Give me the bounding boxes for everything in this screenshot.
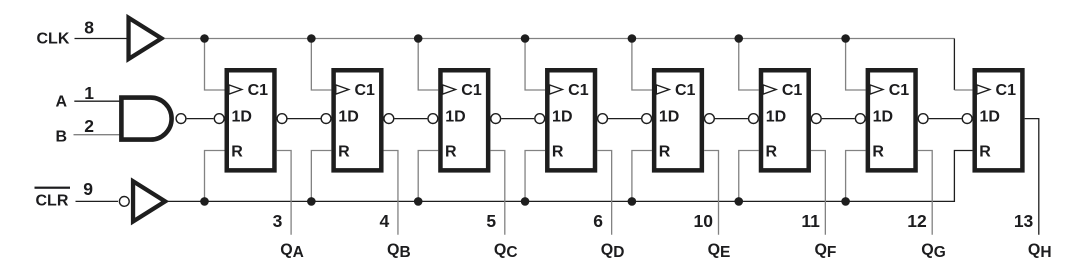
- svg-text:6: 6: [593, 211, 603, 231]
- flip-flop FF2 body: [334, 70, 382, 170]
- wire input A: [74, 100, 121, 102]
- svg-text:1D: 1D: [659, 109, 679, 126]
- junction dot CLK/FF6: [734, 34, 743, 43]
- FF8 dynamic clock indicator: [977, 85, 990, 94]
- FF4 dynamic clock indicator: [549, 85, 562, 94]
- FF6 output bubble: [811, 114, 821, 124]
- svg-text:R: R: [766, 144, 778, 161]
- FF7 dynamic clock indicator: [870, 85, 883, 94]
- flip-flop FF3 body: [440, 70, 488, 170]
- wire reset branch to FF3 R: [418, 151, 438, 202]
- svg-text:R: R: [231, 144, 243, 161]
- wire clock branch to FF5 C1: [632, 39, 652, 91]
- junction dot CLK/FF3: [414, 34, 423, 43]
- svg-text:1: 1: [84, 83, 94, 103]
- FF5 dynamic clock indicator: [656, 85, 669, 94]
- wire reset branch to FF2 R: [311, 151, 331, 202]
- svg-text:5: 5: [486, 211, 496, 231]
- wire FF6 output to FF7 1D: [822, 118, 855, 120]
- svg-text:9: 9: [83, 179, 93, 199]
- inverter input bubble: [119, 197, 129, 207]
- svg-text:QC: QC: [494, 242, 518, 262]
- svg-text:C1: C1: [889, 82, 910, 99]
- FF5 1D input bubble: [642, 114, 652, 124]
- wire FF2 output to FF3 1D: [394, 118, 427, 120]
- svg-text:R: R: [659, 144, 671, 161]
- junction dot CLR/FF6: [734, 197, 743, 206]
- svg-text:C1: C1: [782, 82, 803, 99]
- FF1 dynamic clock indicator: [229, 85, 242, 94]
- svg-text:CLK: CLK: [37, 31, 70, 48]
- svg-text:QG: QG: [921, 242, 946, 262]
- wire clock branch to FF3 C1: [418, 39, 438, 91]
- FF3 1D input bubble: [428, 114, 438, 124]
- wire input B: [74, 134, 122, 136]
- svg-text:QH: QH: [1028, 242, 1052, 262]
- wire clock branch to FF6 C1: [739, 39, 759, 91]
- svg-text:R: R: [872, 144, 884, 161]
- FF5 output bubble: [705, 114, 715, 124]
- NAND output bubble: [176, 114, 186, 124]
- wire reset branch to FF7 R: [846, 151, 866, 202]
- wire QA output drop: [277, 151, 291, 235]
- FF1 1D input bubble: [214, 114, 224, 124]
- wire CLK end vertical down to FF8 C1: [953, 39, 955, 91]
- wire NAND output to FF1 1D: [187, 118, 214, 120]
- FF2 dynamic clock indicator: [336, 85, 349, 94]
- junction dot CLR/FF1: [200, 197, 209, 206]
- svg-text:12: 12: [907, 211, 927, 231]
- buffer U1 clock driver: [126, 14, 165, 63]
- svg-text:1D: 1D: [552, 109, 572, 126]
- wire clock branch to FF4 C1: [525, 39, 545, 91]
- wire reset branch to FF1 R: [205, 151, 225, 202]
- junction dot CLK/FF5: [628, 34, 637, 43]
- NAND gate U2 (A·B): [121, 98, 171, 140]
- wire QH output drop: [1025, 119, 1039, 235]
- flip-flop FF1 body: [227, 70, 275, 170]
- svg-text:C1: C1: [248, 82, 269, 99]
- svg-text:C1: C1: [354, 82, 375, 99]
- FF4 output bubble: [598, 114, 608, 124]
- junction dot CLR/FF3: [414, 197, 423, 206]
- svg-text:QE: QE: [708, 242, 731, 262]
- wire FF3 output to FF4 1D: [501, 118, 534, 120]
- wire reset branch to FF5 R: [632, 151, 652, 202]
- FF6 dynamic clock indicator: [763, 85, 776, 94]
- FF7 1D input bubble: [855, 114, 865, 124]
- wire CLR lead-in: [76, 200, 119, 202]
- wire reset branch to FF4 R: [525, 151, 545, 202]
- svg-text:4: 4: [380, 211, 390, 231]
- svg-text:R: R: [445, 144, 457, 161]
- wire clock branch to FF2 C1: [311, 39, 331, 91]
- wire CLK lead-in: [75, 38, 128, 40]
- FF3 dynamic clock indicator: [443, 85, 456, 94]
- svg-text:QA: QA: [280, 242, 304, 262]
- svg-text:3: 3: [273, 211, 283, 231]
- svg-text:QB: QB: [387, 242, 411, 262]
- flip-flop FF7 body: [868, 70, 916, 170]
- overline on CLR: [35, 187, 71, 189]
- junction dot CLR/FF5: [628, 197, 637, 206]
- wire CLR bus (bottom rail with corner up to FF8 R): [168, 151, 973, 202]
- svg-text:10: 10: [694, 211, 714, 231]
- wire FF8 clock branch horizontal: [954, 89, 972, 91]
- wire FF4 output to FF5 1D: [608, 118, 641, 120]
- svg-text:11: 11: [801, 211, 820, 231]
- wire FF5 output to FF6 1D: [715, 118, 748, 120]
- svg-text:CLR: CLR: [36, 192, 69, 209]
- wire QF output drop: [811, 151, 825, 235]
- svg-text:QD: QD: [601, 242, 625, 262]
- junction dot CLK/FF7: [841, 34, 850, 43]
- svg-text:1D: 1D: [873, 109, 893, 126]
- flip-flop FF8 body: [975, 70, 1023, 170]
- svg-text:R: R: [552, 144, 564, 161]
- svg-text:B: B: [56, 128, 68, 145]
- wire CLK bus (top rail): [165, 38, 955, 40]
- wire FF7 output to FF8 1D: [929, 118, 962, 120]
- FF2 output bubble: [384, 114, 394, 124]
- FF6 1D input bubble: [749, 114, 759, 124]
- svg-text:1D: 1D: [766, 109, 786, 126]
- flip-flop FF5 body: [654, 70, 702, 170]
- FF3 output bubble: [491, 114, 501, 124]
- FF4 1D input bubble: [535, 114, 545, 124]
- wire reset branch to FF6 R: [739, 151, 759, 202]
- svg-text:1D: 1D: [979, 109, 999, 126]
- FF7 output bubble: [918, 114, 928, 124]
- FF8 1D input bubble: [962, 114, 972, 124]
- svg-text:1D: 1D: [338, 109, 358, 126]
- wire QE output drop: [704, 151, 718, 235]
- svg-text:QF: QF: [814, 242, 836, 262]
- junction dot CLR/FF2: [307, 197, 316, 206]
- wire QG output drop: [918, 151, 932, 235]
- junction dot CLK/FF2: [307, 34, 316, 43]
- svg-text:C1: C1: [675, 82, 696, 99]
- wire QB output drop: [384, 151, 398, 235]
- svg-text:1D: 1D: [232, 109, 252, 126]
- svg-text:C1: C1: [461, 82, 482, 99]
- junction dot CLR/FF4: [521, 197, 530, 206]
- wire clock branch to FF1 C1: [205, 39, 225, 91]
- svg-text:1D: 1D: [445, 109, 465, 126]
- wire clock branch to FF7 C1: [846, 39, 866, 91]
- buffer U3 clear driver: [131, 177, 169, 225]
- svg-text:C1: C1: [996, 82, 1017, 99]
- svg-text:8: 8: [84, 18, 94, 38]
- FF2 1D input bubble: [321, 114, 331, 124]
- svg-text:2: 2: [84, 116, 94, 136]
- svg-text:A: A: [56, 94, 68, 111]
- FF1 output bubble: [277, 114, 287, 124]
- wire QD output drop: [597, 151, 611, 235]
- flip-flop FF4 body: [547, 70, 595, 170]
- junction dot CLK/FF4: [521, 34, 530, 43]
- wire FF1 output to FF2 1D: [288, 118, 321, 120]
- junction dot CLK/FF1: [200, 34, 209, 43]
- svg-text:13: 13: [1014, 211, 1034, 231]
- flip-flop FF6 body: [761, 70, 809, 170]
- svg-text:R: R: [979, 144, 991, 161]
- svg-text:R: R: [338, 144, 350, 161]
- junction dot CLR/FF7: [841, 197, 850, 206]
- svg-text:C1: C1: [568, 82, 589, 99]
- wire QC output drop: [490, 151, 504, 235]
